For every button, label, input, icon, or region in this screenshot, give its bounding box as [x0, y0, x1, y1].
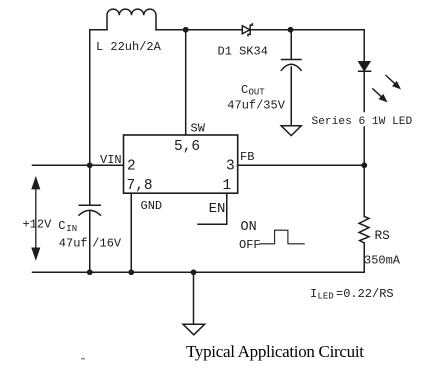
LED light arrow 1: [386, 76, 400, 89]
svg-text:+12V: +12V: [23, 218, 53, 232]
capacitor CIN upper lead: [89, 165, 91, 205]
svg-text:VIN: VIN: [100, 153, 122, 167]
capacitor COUT plates: [281, 60, 301, 71]
ground symbol (COUT): [281, 126, 301, 136]
wire SW line vertical: [185, 30, 187, 135]
op-amp U1 IC body: [124, 135, 238, 193]
svg-text:C: C: [58, 219, 65, 233]
ground symbol (main): [183, 324, 205, 335]
wire VIN horizontal: [33, 164, 124, 166]
wire top-left horizontal: [90, 29, 107, 31]
svg-text:1: 1: [223, 178, 232, 194]
svg-text:47uf/35V: 47uf/35V: [227, 99, 285, 113]
svg-text:Series 6 1W LED: Series 6 1W LED: [312, 116, 413, 128]
wire left leg vertical: [89, 30, 91, 166]
node E junction dot (GND pin): [128, 269, 134, 275]
svg-text:EN: EN: [209, 201, 226, 217]
svg-text:350mA: 350mA: [364, 254, 401, 268]
wire resistor to bottom corner: [363, 243, 365, 272]
capacitor CIN plates: [79, 205, 101, 215]
wire inductor to node A: [156, 29, 242, 31]
svg-text:47uf: 47uf: [59, 237, 88, 251]
svg-text:OUT: OUT: [249, 88, 266, 98]
svg-text:=0.22/RS: =0.22/RS: [336, 287, 394, 301]
svg-text:5,6: 5,6: [174, 139, 200, 155]
svg-text:3: 3: [226, 159, 235, 175]
wire node B to top-right corner: [291, 30, 365, 62]
inductor L 22uh/2A: [107, 9, 156, 30]
wire EN stub: [198, 193, 227, 224]
svg-text:IN: IN: [66, 224, 77, 234]
node A junction dot: [183, 27, 189, 33]
capacitor CIN lower lead: [89, 211, 91, 272]
wire ground stub: [193, 272, 195, 324]
node F junction dot (ground stub): [191, 269, 197, 275]
node B junction dot: [288, 27, 294, 33]
svg-text:I: I: [310, 287, 317, 301]
svg-text:L 22uh/2A: L 22uh/2A: [96, 40, 162, 54]
+12V double arrow: [32, 178, 39, 258]
LED D2: [359, 62, 371, 71]
wire node C to resistor: [363, 165, 365, 216]
svg-text:Typical Application Circuit: Typical Application Circuit: [186, 342, 364, 361]
wire FB horizontal: [238, 164, 365, 166]
svg-text:D1 SK34: D1 SK34: [218, 45, 268, 59]
capacitor COUT lower lead: [290, 67, 292, 126]
LED light arrow 2: [373, 89, 386, 101]
svg-text:7,8: 7,8: [127, 178, 153, 194]
svg-text:ON: ON: [241, 220, 257, 235]
stray mark: [81, 358, 85, 360]
svg-text:C: C: [241, 83, 248, 97]
resistor RS zigzag: [359, 217, 369, 243]
svg-text:SW: SW: [191, 122, 206, 136]
wire GND pin vertical: [130, 193, 132, 272]
svg-text:2: 2: [127, 159, 136, 175]
svg-text:/16V: /16V: [92, 237, 122, 251]
diode D1 SK34: [242, 24, 252, 36]
node C junction dot: [361, 162, 367, 168]
ON/OFF waveform: [260, 230, 305, 244]
svg-text:GND: GND: [141, 199, 163, 213]
svg-text:RS: RS: [375, 228, 391, 243]
svg-text:LED: LED: [318, 292, 334, 302]
svg-text:OFF: OFF: [239, 238, 261, 252]
node G junction dot (VIN): [87, 162, 93, 168]
wire diode to node B: [250, 29, 291, 31]
wire LED cathode down to node C: [363, 71, 365, 111]
node D junction dot (CIN): [87, 269, 93, 275]
wire bottom horizontal: [33, 271, 365, 273]
capacitor COUT lead: [290, 30, 292, 59]
svg-text:FB: FB: [240, 150, 254, 164]
